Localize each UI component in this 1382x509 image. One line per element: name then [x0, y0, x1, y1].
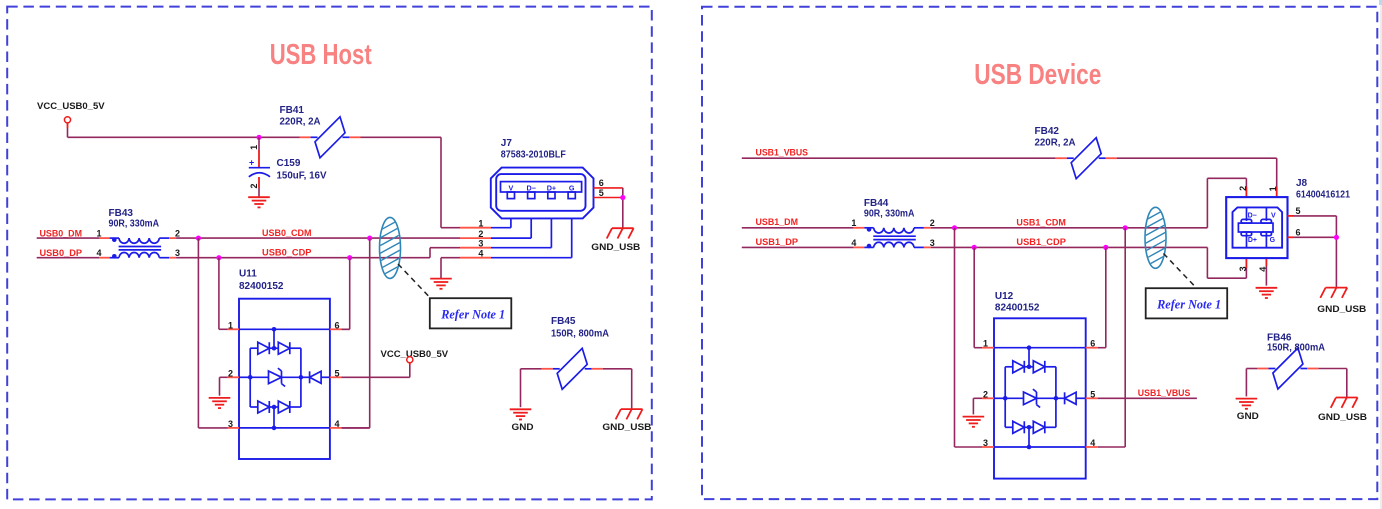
svg-text:5: 5: [599, 188, 604, 198]
svg-text:2: 2: [1238, 186, 1248, 191]
svg-text:GND_USB: GND_USB: [591, 242, 640, 253]
svg-text:5: 5: [335, 368, 340, 378]
U12 pin number 4: [1090, 438, 1095, 448]
U11 pin stub 6: [330, 328, 342, 330]
net label USB0_DM: [40, 228, 83, 238]
svg-text:GND_USB: GND_USB: [1317, 304, 1366, 315]
wire FB45 right to GND_USB: [603, 369, 632, 409]
U11 pin stub 4: [330, 427, 342, 429]
J7 pin wires into connector: [491, 211, 572, 258]
ground GND_USB at J8: [1317, 288, 1366, 315]
U12 pin stub 6: [1086, 347, 1098, 349]
svg-text:VCC_USB0_5V: VCC_USB0_5V: [381, 349, 449, 360]
wire J8 pins 5-6 to GND_USB: [1335, 216, 1337, 288]
U11 pin stub 3: [228, 427, 240, 429]
FB43 pin 2: [175, 229, 180, 239]
node CDM-U11.4: [367, 236, 372, 241]
svg-text:FB42: FB42: [1035, 126, 1060, 137]
wire CDM to U11 pin3: [198, 238, 227, 428]
J8 pin number 5: [1296, 206, 1301, 216]
svg-text:2: 2: [478, 229, 483, 239]
svg-text:4: 4: [335, 419, 340, 429]
U11 pin number 3: [228, 419, 233, 429]
U11 pin stub 5: [330, 376, 342, 378]
U11 right rail: [300, 348, 302, 407]
svg-text:G: G: [569, 183, 575, 192]
node J7.5 junction: [620, 195, 625, 200]
ESD array U12 labels: [995, 291, 1040, 314]
U12 pin number 2: [983, 389, 988, 399]
U12 pin number 1: [983, 339, 988, 349]
wire CDP to U11 pin1: [219, 258, 228, 330]
node CDP-U11.1: [216, 255, 221, 260]
U11 top diode pair: [250, 327, 301, 354]
svg-text:3: 3: [175, 248, 180, 258]
C159 pin 1: [249, 145, 259, 150]
title USB Device: [974, 59, 1101, 91]
svg-text:D−: D−: [527, 183, 536, 192]
svg-text:USB0_DM: USB0_DM: [40, 228, 83, 238]
title USB Host: [270, 39, 372, 71]
ground at U11 pin2: [209, 398, 231, 408]
svg-text:6: 6: [1090, 339, 1095, 349]
node CDM-U11.3: [196, 236, 201, 241]
node junction at C159: [256, 135, 261, 140]
ground at U12 pin2: [963, 417, 985, 427]
J7 pin stub 2: [460, 237, 491, 239]
J7 pin stub 3: [460, 247, 491, 249]
wire J7 pins 5-6 to GND_USB: [622, 188, 624, 228]
capacitor C159: [249, 137, 270, 197]
ground at J8 pin4: [1256, 288, 1278, 298]
ground GND_USB at J7: [591, 228, 640, 253]
ground GND_USB at FB46: [1318, 398, 1367, 424]
FB41 labels: [280, 105, 321, 128]
svg-text:2: 2: [930, 218, 935, 228]
U12 bottom diode pair: [1005, 421, 1056, 449]
svg-text:V: V: [1271, 213, 1276, 220]
ESD array U11 labels: [239, 268, 284, 292]
svg-text:USB0_CDM: USB0_CDM: [262, 228, 312, 238]
ground GND at FB46: [1236, 399, 1259, 422]
svg-text:D+: D+: [1248, 237, 1257, 244]
J7 pin stub 1: [460, 227, 491, 229]
U11 pin number 4: [335, 419, 340, 429]
FB43 pin 4: [96, 248, 101, 258]
svg-text:1: 1: [851, 218, 856, 228]
dashed leader right: [1164, 254, 1197, 289]
svg-text:150R, 800mA: 150R, 800mA: [551, 328, 609, 339]
C159 labels: [277, 158, 327, 182]
node CDP-U11.6: [347, 255, 352, 260]
shield ellipse note marker left: [376, 194, 404, 302]
net label USB1_VBUS at U12.5: [1138, 388, 1191, 398]
wire U11 pin2 to ground: [220, 377, 228, 395]
net label USB1_DP: [756, 237, 799, 247]
J7 pin number 3: [478, 239, 483, 249]
FB44 pin 2: [930, 218, 935, 228]
J8 pin number 4: [1258, 267, 1268, 272]
wire J7 pin4 to ground: [441, 258, 460, 279]
svg-text:FB43: FB43: [109, 208, 134, 219]
svg-text:USB0_DP: USB0_DP: [40, 248, 83, 258]
svg-text:U12: U12: [995, 291, 1014, 302]
U12 pin number 5: [1090, 389, 1095, 399]
wire USB0_CDM: [176, 237, 460, 239]
U11 left rail: [249, 348, 251, 407]
svg-text:82400152: 82400152: [995, 303, 1040, 314]
connector J7 body: [491, 168, 594, 219]
svg-text:90R, 330mA: 90R, 330mA: [109, 219, 160, 230]
svg-text:USB0_CDP: USB0_CDP: [262, 248, 312, 258]
net label USB1_CDM: [1016, 217, 1066, 227]
J7 pin number 1: [478, 219, 483, 229]
svg-text:G: G: [1270, 237, 1276, 244]
U12 pin stub 5: [1086, 397, 1098, 399]
wire CDP to U12 pin1: [974, 247, 982, 347]
note box left: [430, 298, 512, 328]
svg-text:61400416121: 61400416121: [1296, 190, 1350, 201]
FB44 pin 3: [930, 238, 935, 248]
svg-text:87583-2010BLF: 87583-2010BLF: [501, 150, 566, 161]
U12 top diode pair: [1005, 345, 1056, 372]
U11 pin number 5: [335, 368, 340, 378]
J8 pin 5 wire: [1288, 215, 1337, 217]
U12 left rail: [1004, 367, 1006, 428]
wire VCC_USB0_5V to FB41: [68, 128, 300, 137]
U11 pin1-6 line: [239, 328, 330, 330]
J8 pin number 3: [1238, 266, 1248, 271]
svg-text:2: 2: [175, 229, 180, 239]
svg-text:220R, 2A: 220R, 2A: [1035, 138, 1076, 149]
wire CDM to U11 pin4: [342, 238, 370, 428]
U12 pin2 line: [994, 397, 1005, 399]
connector J8 labels: [1296, 178, 1350, 201]
J7 pin number 4: [478, 249, 483, 259]
C159 pin 2: [249, 183, 259, 188]
svg-text:USB1_CDM: USB1_CDM: [1016, 217, 1066, 227]
wire USB1_VBUS: [742, 157, 1056, 159]
J7 pin 6 wire: [594, 187, 623, 189]
svg-text:3: 3: [1238, 266, 1248, 271]
FB43 labels: [109, 208, 160, 230]
J8 pin number 1: [1268, 186, 1278, 191]
ground at C159: [248, 197, 270, 207]
U12 pin1-6 line: [994, 347, 1086, 349]
wire CDP to U11 pin6: [342, 258, 350, 330]
net label USB0_CDM: [262, 228, 312, 238]
svg-text:V: V: [509, 183, 514, 192]
net label USB0_DP: [40, 248, 83, 258]
node CDM-U12.3: [952, 225, 957, 230]
svg-text:D+: D+: [547, 183, 556, 192]
svg-text:J8: J8: [1296, 178, 1308, 189]
ESD array U12 body: [994, 318, 1086, 478]
svg-text:5: 5: [1296, 206, 1301, 216]
common-mode choke FB43: [99, 237, 176, 258]
J8 pin 6 wire: [1288, 236, 1337, 238]
wire CDM to U12 pin3: [955, 228, 983, 447]
U12 pin stub 3: [982, 446, 994, 448]
wire FB42 to J8 pin1: [1117, 158, 1277, 187]
U11 pin stub 2: [228, 376, 240, 378]
FB44 pin 4: [851, 238, 856, 248]
J7 pin number 5: [599, 188, 604, 198]
J7 pin 5 wire: [594, 197, 623, 199]
svg-text:1: 1: [478, 219, 483, 229]
U11 pin2 line: [239, 376, 250, 378]
U12 pin number 3: [983, 438, 988, 448]
svg-text:GND: GND: [1237, 411, 1259, 422]
svg-text:USB1_VBUS: USB1_VBUS: [1138, 388, 1191, 398]
wire FB46 right to GND_USB: [1318, 369, 1346, 398]
wire CDM to U12 pin4: [1098, 228, 1126, 447]
net label USB0_CDP: [262, 248, 312, 258]
svg-text:Refer Note 1: Refer Note 1: [440, 307, 505, 322]
svg-text:FB44: FB44: [864, 198, 889, 209]
FB42 labels: [1035, 126, 1076, 149]
U12 pin number 6: [1090, 339, 1095, 349]
U11 pin3-4 line: [239, 427, 330, 429]
svg-text:FB45: FB45: [551, 316, 576, 327]
net label USB1_CDP: [1016, 237, 1066, 247]
svg-text:150uF, 16V: 150uF, 16V: [277, 171, 327, 182]
svg-text:6: 6: [1296, 228, 1301, 238]
svg-text:1: 1: [1268, 186, 1278, 191]
svg-text:1: 1: [983, 339, 988, 349]
svg-text:+: +: [249, 158, 254, 168]
svg-text:3: 3: [930, 238, 935, 248]
wire U12 pin2 to ground: [973, 398, 982, 414]
svg-text:5: 5: [1090, 389, 1095, 399]
U11 pin number 6: [335, 320, 340, 330]
J8 pin4 stub: [1265, 258, 1267, 266]
svg-text:3: 3: [228, 419, 233, 429]
svg-text:VCC_USB0_5V: VCC_USB0_5V: [37, 101, 105, 112]
svg-text:2: 2: [249, 183, 259, 188]
svg-text:U11: U11: [239, 268, 257, 279]
svg-text:GND_USB: GND_USB: [1318, 412, 1367, 423]
svg-text:USB Host: USB Host: [270, 39, 372, 71]
ground at J7 pin4: [430, 279, 452, 289]
net label USB1_VBUS: [756, 147, 809, 157]
svg-text:USB1_DP: USB1_DP: [756, 237, 799, 247]
wire USB1_DP: [742, 246, 854, 248]
power terminal VCC_USB0_5V: [37, 101, 105, 128]
svg-text:3: 3: [983, 438, 988, 448]
U11 bottom diode pair: [250, 401, 301, 430]
svg-text:GND_USB: GND_USB: [602, 422, 651, 433]
ground GND_USB at FB45: [602, 409, 651, 433]
J8 pin3 stub: [1245, 258, 1247, 268]
wire FB46 left to GND: [1246, 369, 1257, 397]
J8 pin number 2: [1238, 186, 1248, 191]
svg-text:Refer Note 1: Refer Note 1: [1156, 297, 1221, 312]
U12 pin stub 2: [982, 397, 994, 399]
wire FB45 left to GND: [521, 369, 542, 407]
svg-text:150R, 800mA: 150R, 800mA: [1267, 343, 1325, 354]
U11 right steering diode: [301, 371, 330, 383]
node CDP-U12.6: [1103, 245, 1108, 250]
FB43 pin 3: [175, 248, 180, 258]
wire USB0_DM: [37, 237, 99, 239]
wire U11 pin5 to VCC: [342, 363, 410, 378]
svg-text:1: 1: [228, 320, 233, 330]
FB45 labels: [551, 316, 609, 339]
wire CDP to U12 pin6: [1098, 247, 1106, 347]
U11 pin number 1: [228, 320, 233, 330]
svg-text:FB41: FB41: [280, 105, 305, 116]
ferrite bead FB45: [542, 348, 603, 389]
svg-text:3: 3: [478, 239, 483, 249]
J7 pin number 6: [599, 178, 604, 188]
svg-text:GND: GND: [512, 422, 534, 433]
wire CDP to J8 pin3: [1207, 247, 1246, 278]
svg-text:82400152: 82400152: [239, 281, 284, 292]
wire J8 pin4 to ground: [1265, 266, 1267, 286]
svg-text:4: 4: [851, 238, 856, 248]
svg-text:USB1_DM: USB1_DM: [756, 217, 799, 227]
wire USB0_CDP: [176, 248, 460, 258]
U12 right rail: [1055, 367, 1057, 428]
svg-text:4: 4: [96, 248, 101, 258]
FB43 pin 1: [96, 229, 101, 239]
J8 pin number 6: [1296, 228, 1301, 238]
ESD array U11 body: [239, 299, 330, 459]
U12 pin3-4 line: [994, 446, 1086, 448]
connector J7 labels: [501, 138, 566, 161]
U12 middle TVS diode: [1003, 389, 1058, 407]
node J8.6 junction: [1334, 235, 1339, 240]
svg-text:USB Device: USB Device: [974, 59, 1101, 91]
wire USB0_DP: [37, 257, 99, 259]
FB46 labels: [1267, 332, 1325, 353]
svg-text:4: 4: [1090, 438, 1095, 448]
wire FB41 to J7 pin1: [361, 137, 461, 227]
ferrite bead FB46: [1257, 348, 1318, 389]
node CDM-U12.4: [1123, 225, 1128, 230]
connector J8 body: [1226, 197, 1287, 258]
svg-text:2: 2: [983, 389, 988, 399]
svg-text:2: 2: [228, 368, 233, 378]
FB44 pin 1: [851, 218, 856, 228]
U11 pin number 2: [228, 368, 233, 378]
svg-text:220R, 2A: 220R, 2A: [280, 117, 321, 128]
svg-text:1: 1: [96, 229, 101, 239]
FB44 labels: [864, 198, 915, 219]
wire U11 pin6 to CDP: [342, 328, 350, 330]
wire USB1_CDP: [931, 246, 1208, 248]
wire U11 pin4 to CDM: [342, 427, 370, 429]
svg-text:6: 6: [599, 178, 604, 188]
wire USB1_CDM: [931, 227, 1208, 229]
U12 pin stub 1: [982, 347, 994, 349]
ferrite bead FB42: [1056, 138, 1117, 179]
svg-text:4: 4: [478, 249, 483, 259]
common-mode choke FB44: [854, 227, 931, 248]
wire U12 pin5 USB1_VBUS: [1098, 397, 1197, 399]
J8 pin1 stub: [1276, 187, 1278, 197]
svg-text:J7: J7: [501, 138, 513, 149]
J7 pin stub 4: [460, 257, 491, 259]
wire CDM to J8 pin2: [1207, 178, 1246, 228]
dashed leader left: [398, 264, 430, 298]
U11 pin stub 1: [228, 328, 240, 330]
wire USB1_DM: [742, 227, 854, 229]
svg-text:1: 1: [249, 145, 259, 150]
U11 middle TVS diode: [248, 368, 303, 386]
power terminal VCC_USB0_5V at U11.5: [381, 349, 449, 363]
svg-text:90R, 330mA: 90R, 330mA: [864, 209, 915, 220]
svg-text:USB1_CDP: USB1_CDP: [1016, 237, 1066, 247]
ground GND at FB45: [510, 409, 534, 433]
J7 pin number 2: [478, 229, 483, 239]
net label USB1_DM: [756, 217, 799, 227]
shield ellipse note marker right: [1142, 184, 1170, 292]
svg-text:C159: C159: [277, 158, 301, 169]
ferrite bead FB41: [300, 117, 361, 158]
node CDP-U12.1: [972, 245, 977, 250]
note box right: [1146, 288, 1228, 318]
svg-text:6: 6: [335, 320, 340, 330]
U12 pin stub 4: [1086, 446, 1098, 448]
J8 pin2 stub: [1245, 187, 1247, 197]
U12 right steering diode: [1056, 392, 1086, 404]
svg-text:USB1_VBUS: USB1_VBUS: [756, 147, 809, 157]
